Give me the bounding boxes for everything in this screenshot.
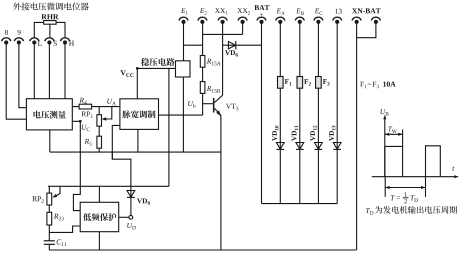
fuse F1	[278, 77, 284, 89]
resistor R5	[97, 136, 102, 148]
wire RHR left to L	[34, 22, 43, 37]
terminal 8	[2, 38, 11, 45]
waveform Tw arrow	[385, 133, 403, 135]
terminal E2	[198, 17, 207, 24]
wire XX1 to VD6 anode	[223, 44, 262, 46]
wire RHR wiper to S	[49, 24, 51, 37]
wire terminal L down	[33, 45, 35, 99]
terminal 13	[333, 17, 342, 24]
terminal XX2	[238, 17, 247, 24]
potentiometer RP2 riser	[48, 186, 50, 193]
wire XX2 down	[242, 24, 244, 34]
wire XN-BAT second terminal	[357, 24, 376, 38]
block 低频保护 low-frequency protection	[80, 202, 119, 231]
wire E2 down to R15A	[202, 24, 204, 56]
terminal XX1	[218, 17, 227, 24]
terminal L	[30, 38, 39, 45]
rail wire joining BAT..13	[262, 203, 338, 205]
node UD circle	[129, 215, 133, 219]
bus wire horizontal	[50, 151, 221, 153]
wire E1 down to regulator	[183, 24, 185, 61]
junction VCC	[136, 67, 139, 70]
wire VCC down to PWM box	[136, 68, 138, 98]
wire XN-BAT down to bottom bus	[356, 24, 358, 250]
diode VD12	[315, 143, 323, 150]
wire RHR right to H	[56, 22, 65, 37]
waveform x axis	[372, 176, 457, 178]
wire lowfreq bottom pin to bus	[98, 232, 100, 250]
potentiometer RHR label	[41, 14, 58, 19]
waveform T arrow	[385, 187, 425, 189]
wire R23 to C11	[48, 225, 50, 241]
wire node Ub vertical	[202, 93, 204, 115]
terminal BAT	[257, 17, 266, 24]
waveform y axis	[384, 118, 386, 177]
terminal E1	[179, 17, 188, 24]
wire Ub to VT3 base	[203, 103, 213, 105]
label 稳压电路 regulator	[141, 58, 175, 66]
wire PWM bottom to bus	[137, 129, 139, 152]
terminal H	[60, 38, 69, 45]
waveform pulse 2	[426, 146, 441, 177]
wire XX1 down to VT3 collector	[222, 24, 224, 95]
node Ub label	[188, 101, 195, 108]
wire RP2 to R23	[48, 205, 50, 212]
wire terminal H down	[64, 45, 66, 99]
label T = 1/2 TD	[391, 195, 395, 200]
wire RP1 wiper arrow	[105, 107, 112, 119]
resistor R15B	[200, 82, 205, 94]
wire R5 to bus	[98, 148, 100, 152]
waveform T guides below axis	[384, 177, 386, 197]
wire link E1-E2	[184, 44, 203, 46]
fuse F3	[316, 77, 322, 89]
terminal EA	[276, 17, 285, 24]
wire EB line with fuse F2 and diode VD11	[299, 24, 301, 204]
transistor VT3	[213, 98, 215, 113]
node UC wire	[72, 121, 80, 210]
wire box to R4 node UA	[72, 106, 120, 108]
diode VD6	[228, 42, 235, 49]
wire VD8 to UD node	[130, 197, 132, 215]
wire RP2 wiper arrow	[55, 186, 60, 196]
fuse F2	[297, 77, 303, 89]
block 脉宽调制 PWM	[120, 99, 159, 130]
junction UC	[79, 120, 82, 123]
wire PWM left lower pin to VD8	[112, 125, 131, 197]
bottom bus wire	[49, 249, 357, 251]
diode VD8	[127, 191, 135, 198]
wire PWM right to node Ub	[159, 114, 203, 116]
wire 13 line with diode VD13	[336, 24, 338, 204]
wire terminal 9 to voltage-measure box	[19, 45, 27, 108]
diode VD11	[296, 143, 304, 150]
label F1~F3 10A	[360, 82, 395, 89]
waveform Tw guide	[402, 130, 404, 147]
wire VT3 emitter down to bottom bus	[220, 115, 222, 250]
wire EA line with fuse F1 and diode VD10	[279, 24, 281, 204]
wire BAT line down to rail	[261, 24, 263, 204]
waveform UB label	[380, 109, 388, 116]
label 外接电压微调电位器 (external voltage trim potentiometer)	[13, 2, 89, 10]
wire EC line with fuse F3 and diode VD12	[317, 24, 319, 204]
diode VD13	[333, 143, 341, 150]
wire VCC to regulator box	[137, 67, 175, 69]
label TD is generator output voltage period	[366, 208, 373, 215]
wire terminal S down	[48, 45, 50, 99]
terminal XN-BAT pair	[352, 17, 361, 24]
resistor R4	[79, 104, 92, 109]
node VCC label	[120, 70, 133, 77]
diode VD10	[276, 143, 284, 150]
wire terminal 8 to voltage-measure box	[6, 45, 26, 120]
wire R15A to R15B	[202, 67, 204, 81]
terminal EB	[295, 17, 304, 24]
terminal S	[45, 38, 54, 45]
wire branch down at x169	[168, 68, 170, 186]
potentiometer RP2	[47, 193, 52, 205]
wire box bottom to bus	[49, 130, 51, 152]
waveform pulse 1	[385, 146, 403, 176]
wire RP1 top	[98, 107, 100, 115]
capacitor C11	[44, 240, 55, 242]
terminal 9	[14, 38, 23, 45]
node UA label	[107, 99, 116, 106]
block regulator box	[176, 61, 191, 77]
wire R23 node to lowfreq box pin2	[49, 226, 80, 232]
block 电压测量 voltage measurement	[26, 99, 72, 130]
wire lowfreq right pin to UD	[119, 216, 129, 218]
wire RP1 to R5	[98, 126, 100, 136]
resistor R23	[47, 212, 52, 225]
wire link E2-XX2	[203, 33, 243, 35]
wire regulator bottom to bus	[182, 77, 184, 152]
terminal EC	[314, 17, 323, 24]
wire lowfreq ground line	[48, 185, 169, 187]
potentiometer RP1	[97, 115, 102, 127]
wire lowfreq top pin	[98, 186, 100, 202]
wire C11 to bottom bus	[48, 244, 50, 250]
potentiometer RHR	[44, 21, 56, 25]
wire bus branch to VD8	[111, 152, 113, 159]
resistor R15A	[200, 56, 205, 68]
